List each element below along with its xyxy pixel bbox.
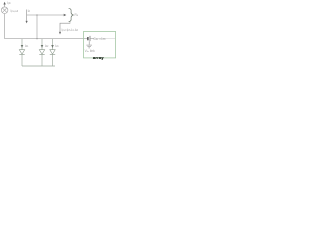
svg-text:Ipv=Iph-Id-Ish: Ipv=Iph-Id-Ish: [62, 28, 79, 32]
wire: source bottom down to rail: [4, 14, 6, 39]
wire W1 with right arrow: [27, 14, 67, 16]
wire into box: [86, 38, 89, 40]
svg-text:Ipv,cell: Ipv,cell: [11, 9, 19, 13]
svg-text:array: array: [93, 55, 104, 60]
node: W1 to rail connector: [36, 15, 38, 39]
annotation arrow Id (down) with stub: [26, 10, 28, 24]
svg-text:Cdc =1m: Cdc =1m: [93, 37, 105, 41]
current source I_ph arrow annotation: [3, 2, 5, 7]
svg-text:Vdc link: Vdc link: [85, 49, 96, 53]
diode D1: [19, 39, 24, 66]
wire: brace bottom loop back to rail with down arrow: [59, 22, 70, 34]
ground: [86, 41, 92, 48]
brace Rs: [69, 8, 74, 21]
diode D2: [39, 39, 44, 66]
wire: top rail: [5, 38, 87, 40]
box name label: [93, 55, 105, 60]
battery/cap plates: [88, 36, 115, 41]
current source U1 (circle with X): [1, 7, 8, 14]
subsystem box: [84, 32, 116, 58]
bottom bus wire: [22, 65, 55, 67]
diode D3 / shunt branch: [50, 39, 55, 66]
